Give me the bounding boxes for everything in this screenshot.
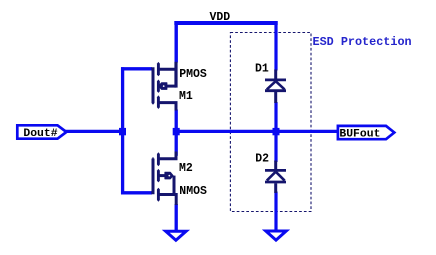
D1 triangle — [267, 81, 285, 89]
svg-text:PMOS: PMOS — [179, 68, 207, 81]
M1 channel bar bottom — [157, 95, 160, 109]
M1 source/bulk vertical to VDD — [174, 62, 177, 88]
junction node at ESD diodes — [273, 128, 280, 135]
svg-text:Dout#: Dout# — [23, 128, 57, 140]
svg-text:BUFout: BUFout — [339, 128, 380, 140]
wire M2 gate horizontal — [121, 191, 152, 194]
D2 triangle — [267, 172, 285, 181]
svg-text:D2: D2 — [255, 153, 269, 166]
M2 bulk arrow — [165, 172, 173, 178]
diode D2 — [265, 161, 286, 194]
D1 anode pin stub — [274, 92, 277, 103]
wire VDD rail left drop to M1 source — [174, 21, 177, 63]
D2 cathode pin stub — [274, 161, 277, 170]
M2 gate bar — [151, 159, 153, 193]
M1 drain stub — [158, 103, 176, 111]
M1 bulk arrow — [159, 83, 167, 89]
wire output horizontal to BUFout tag — [176, 130, 338, 133]
M1 source stub — [158, 68, 176, 71]
D2 anode bar — [265, 181, 286, 184]
transistor M2 NMOS — [151, 152, 176, 206]
svg-text:NMOS: NMOS — [179, 185, 207, 198]
svg-text:VDD: VDD — [210, 11, 231, 24]
M1 gate bar — [151, 69, 153, 103]
wire gate bus vertical — [121, 67, 124, 194]
ground symbol under D2 — [266, 231, 286, 240]
wire input from Dout# tag to gate node — [65, 130, 123, 133]
M1 channel bar top — [157, 62, 160, 76]
diode D1 — [265, 70, 286, 104]
svg-text:M2: M2 — [179, 162, 193, 175]
wire D1 anode down to output node — [274, 102, 277, 131]
wire M1 gate horizontal — [121, 67, 152, 70]
wire drain bus vertical M1 to M2 — [175, 110, 178, 156]
M1 bulk line — [165, 85, 176, 88]
svg-text:ESD Protection: ESD Protection — [313, 35, 412, 49]
transistor M1 PMOS — [151, 62, 176, 111]
svg-text:M1: M1 — [179, 90, 193, 103]
wire output node down to D2 cathode — [274, 131, 277, 162]
D2 anode pin stub — [274, 183, 277, 193]
ground symbol under M2 — [166, 231, 186, 240]
M2 source stub — [158, 195, 176, 206]
port tag Dout# — [17, 125, 66, 138]
M2 channel bar middle — [157, 169, 160, 183]
wire D2 anode down to ground — [274, 192, 277, 232]
port tag BUFout — [338, 126, 394, 139]
M2 bulk vertical to source — [173, 176, 176, 195]
M2 drain stub — [158, 152, 176, 159]
M2 bulk line — [158, 174, 166, 177]
M2 channel bar bottom — [157, 188, 160, 202]
D1 cathode bar — [265, 79, 286, 82]
D1 anode bar — [265, 89, 286, 92]
wire M2 source down to ground — [175, 204, 178, 231]
svg-text:D1: D1 — [255, 62, 269, 75]
net VDD rail wire — [174, 21, 277, 25]
junction node at gate bus — [119, 128, 126, 135]
D1 cathode pin stub — [274, 70, 277, 79]
M2 channel bar top — [157, 152, 160, 166]
wire VDD rail right drop to D1 cathode — [274, 21, 277, 71]
junction node at drain bus — [173, 128, 180, 135]
ESD Protection dashed boundary box — [230, 33, 311, 212]
D2 cathode bar — [265, 169, 286, 172]
M1 channel bar middle — [157, 80, 160, 93]
